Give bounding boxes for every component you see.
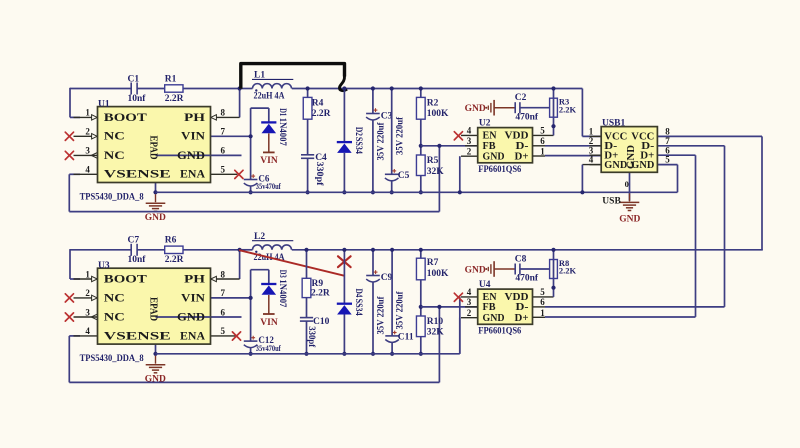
svg-text:U3: U3 [98,261,110,271]
svg-text:VIN: VIN [260,318,278,328]
svg-text:10nf: 10nf [128,94,147,104]
svg-text:U4: U4 [479,280,491,290]
svg-text:2.2R: 2.2R [165,255,184,265]
svg-text:PH: PH [184,271,206,285]
svg-text:470nf: 470nf [515,274,539,284]
svg-text:3: 3 [85,146,90,156]
svg-text:4: 4 [85,165,90,175]
svg-text:GND: GND [483,152,505,163]
svg-text:6: 6 [540,136,545,146]
svg-text:VIN: VIN [181,290,205,304]
svg-text:R10: R10 [427,317,444,327]
svg-text:8: 8 [221,269,226,279]
svg-text:6: 6 [540,297,545,307]
svg-text:GND: GND [465,104,486,114]
svg-text:EN: EN [483,131,497,142]
svg-text:D3: D3 [277,270,287,278]
svg-text:D+: D+ [515,152,529,163]
svg-text:3: 3 [467,297,472,307]
svg-text:EPAD: EPAD [148,136,160,160]
svg-text:C5: C5 [398,171,410,181]
svg-text:5: 5 [540,126,545,136]
svg-text:35V 220uf: 35V 220uf [377,122,387,161]
svg-text:VSENSE: VSENSE [104,167,171,181]
svg-text:8: 8 [221,108,226,118]
svg-text:ENA: ENA [180,167,205,181]
svg-text:5: 5 [665,155,670,165]
svg-text:SS34: SS34 [353,137,363,154]
svg-text:R1: R1 [165,74,177,84]
svg-text:C8: C8 [515,255,527,265]
svg-text:GND: GND [483,313,505,324]
svg-text:FP6601QS6: FP6601QS6 [478,165,521,175]
svg-text:35V 220uf: 35V 220uf [395,116,405,155]
svg-text:EPAD: EPAD [148,297,160,321]
svg-text:C11: C11 [398,333,414,343]
svg-text:2.2K: 2.2K [559,104,577,114]
svg-text:GND: GND [604,160,627,171]
svg-text:4: 4 [589,155,594,165]
svg-text:SS34: SS34 [353,299,363,316]
svg-text:NC: NC [104,129,125,143]
svg-text:4: 4 [467,126,472,136]
svg-text:GND: GND [465,266,486,276]
svg-text:USB1: USB1 [602,118,625,128]
svg-text:GND: GND [177,148,205,162]
svg-text:C2: C2 [515,93,527,103]
svg-text:10nf: 10nf [128,255,147,265]
svg-text:6: 6 [221,307,226,317]
svg-text:U1: U1 [98,99,110,109]
svg-text:C7: C7 [128,236,140,246]
svg-text:2.2K: 2.2K [559,266,577,276]
svg-text:330pf: 330pf [314,162,324,187]
svg-text:1: 1 [85,269,90,279]
svg-text:35v470uf: 35v470uf [256,181,281,191]
svg-text:330pf: 330pf [306,326,316,348]
svg-text:4: 4 [85,326,90,336]
svg-text:FB: FB [483,302,496,313]
svg-text:2: 2 [467,146,472,156]
svg-text:USB: USB [602,196,621,206]
svg-text:D2: D2 [353,127,363,136]
svg-text:22uH 4A: 22uH 4A [254,92,285,102]
svg-text:C1: C1 [128,74,140,84]
svg-text:GND: GND [145,213,166,223]
svg-text:R6: R6 [165,236,177,246]
svg-text:1: 1 [85,108,90,118]
svg-text:0: 0 [625,179,629,189]
svg-text:35V 220uf: 35V 220uf [377,296,387,335]
svg-text:2: 2 [85,288,90,298]
svg-text:5: 5 [221,165,226,175]
svg-text:VDD: VDD [505,131,529,142]
svg-text:6: 6 [221,146,226,156]
svg-text:2: 2 [467,308,472,318]
svg-text:3: 3 [467,136,472,146]
svg-text:PH: PH [184,110,206,124]
svg-text:D4: D4 [353,289,363,298]
svg-text:5: 5 [221,326,226,336]
svg-text:GND: GND [626,145,637,169]
svg-text:C9: C9 [381,273,393,283]
svg-text:D1: D1 [277,108,287,116]
svg-text:D-: D- [516,302,530,313]
svg-text:VSENSE: VSENSE [104,328,171,342]
svg-text:ENA: ENA [180,328,205,342]
svg-text:TPS5430_DDA_8: TPS5430_DDA_8 [80,354,144,364]
svg-text:1N4007: 1N4007 [277,279,287,307]
svg-text:1N4007: 1N4007 [277,118,287,146]
svg-text:NC: NC [104,290,125,304]
svg-text:35V 220uf: 35V 220uf [395,291,405,330]
svg-text:35v470uf: 35v470uf [256,343,281,353]
svg-text:1: 1 [540,308,545,318]
svg-text:3: 3 [85,307,90,317]
svg-text:BOOT: BOOT [104,110,147,124]
svg-text:C3: C3 [381,112,393,122]
svg-text:5: 5 [540,287,545,297]
svg-text:TPS5430_DDA_8: TPS5430_DDA_8 [80,192,144,202]
svg-text:FB: FB [483,141,496,152]
svg-text:R5: R5 [427,156,439,166]
svg-text:VIN: VIN [260,156,278,166]
svg-text:R7: R7 [427,258,439,268]
svg-text:U2: U2 [479,118,491,128]
svg-text:7: 7 [221,127,226,137]
svg-text:D-: D- [516,141,530,152]
svg-text:NC: NC [104,309,125,323]
svg-text:D+: D+ [515,313,529,324]
svg-text:GND: GND [619,214,640,224]
svg-text:VIN: VIN [181,129,205,143]
svg-text:100K: 100K [427,269,449,279]
svg-text:2.2R: 2.2R [312,109,331,119]
svg-text:1: 1 [540,146,545,156]
svg-text:2.2R: 2.2R [165,94,184,104]
svg-text:32K: 32K [427,327,445,337]
svg-text:2: 2 [85,127,90,137]
svg-text:470nf: 470nf [515,112,539,122]
svg-text:7: 7 [221,288,226,298]
svg-text:100K: 100K [427,109,449,119]
svg-text:32K: 32K [427,167,445,177]
svg-text:BOOT: BOOT [104,271,147,285]
svg-text:2.2R: 2.2R [311,288,330,298]
svg-text:4: 4 [467,287,472,297]
svg-text:GND: GND [177,309,205,323]
svg-text:NC: NC [104,148,125,162]
svg-text:R2: R2 [427,98,439,108]
svg-text:FP6601QS6: FP6601QS6 [478,327,521,337]
svg-text:R4: R4 [312,98,324,108]
